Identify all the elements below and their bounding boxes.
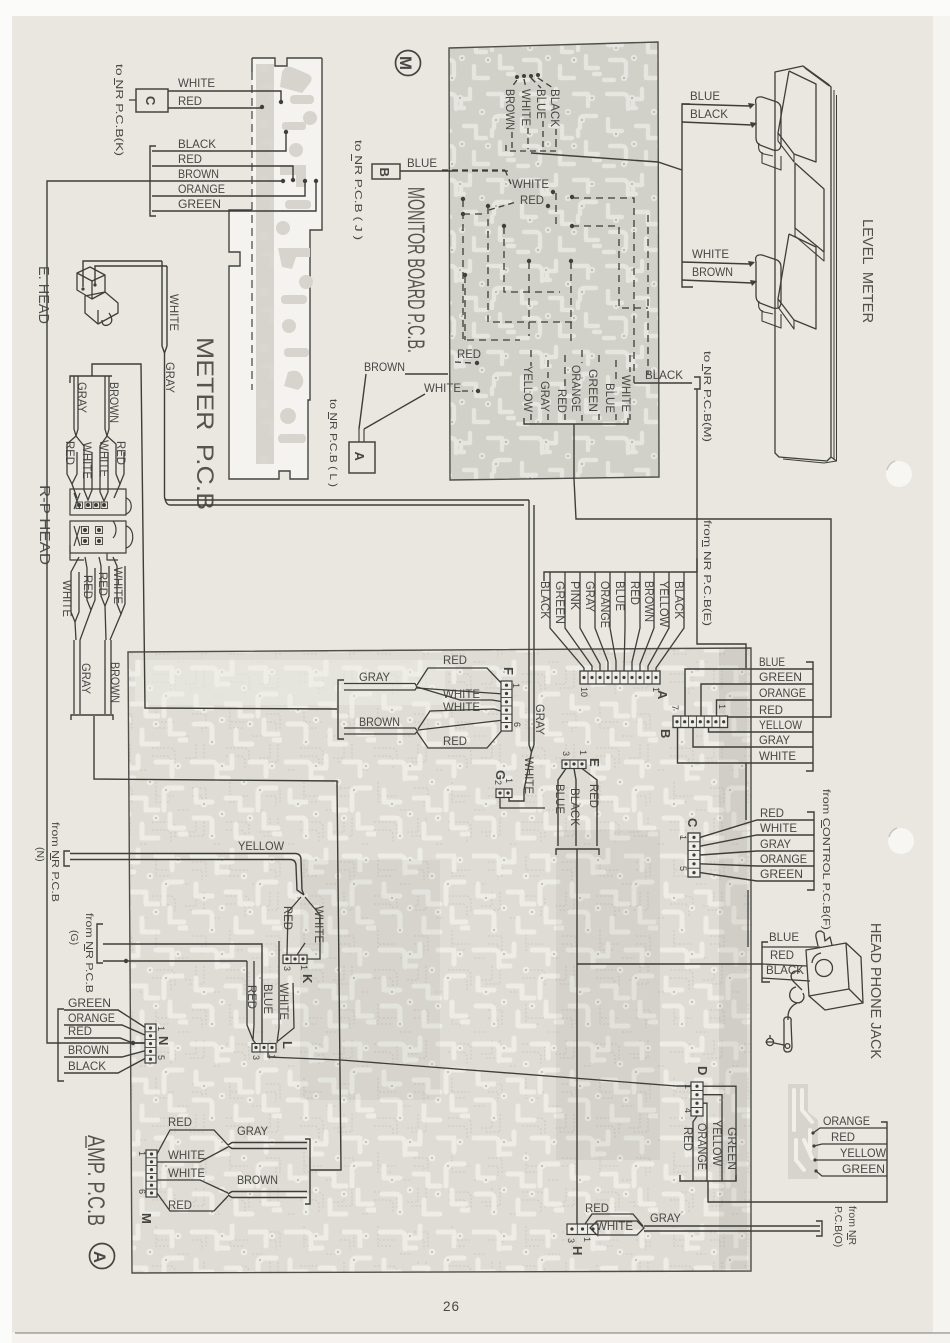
METER P.C.B label xyxy=(191,337,218,510)
svg-text:WHITE: WHITE xyxy=(168,1166,205,1180)
svg-text:RED: RED xyxy=(443,653,467,667)
monitor bottom wire labels YELLOW GRAY RED ORANGE GREEN BLUE WHITE xyxy=(521,365,633,413)
svg-text:B: B xyxy=(377,168,392,177)
circled A xyxy=(90,1244,115,1269)
svg-text:ORANGE: ORANGE xyxy=(598,581,612,628)
svg-text:from CONTROL P.C.B(F): from CONTROL P.C.B(F) xyxy=(820,789,832,930)
svg-text:BLACK: BLACK xyxy=(68,1059,106,1073)
svg-text:RED: RED xyxy=(831,1130,855,1144)
svg-text:(G): (G) xyxy=(68,930,80,945)
circled M xyxy=(396,51,421,76)
svg-text:3: 3 xyxy=(282,966,292,971)
pin label 1 xyxy=(582,1237,592,1242)
connector C(K) box xyxy=(129,89,168,112)
wire BLUE to L xyxy=(103,944,275,1044)
svg-text:RED: RED xyxy=(443,734,467,748)
label from NR P.C.B(O) xyxy=(832,1206,858,1247)
svg-text:ORANGE: ORANGE xyxy=(823,1114,870,1128)
pin label 5 xyxy=(678,866,688,871)
svg-text:1: 1 xyxy=(511,683,521,688)
pin label 3 xyxy=(251,1055,261,1060)
svg-text:ORANGE: ORANGE xyxy=(569,365,583,412)
wire RED monitor mid xyxy=(489,193,550,210)
wire B white to C red xyxy=(745,763,747,820)
pin label 5 xyxy=(156,1055,166,1060)
wire GREEN fragment xyxy=(816,1162,887,1176)
svg-text:from NR P.C.B: from NR P.C.B xyxy=(49,822,61,902)
svg-text:RED: RED xyxy=(178,152,202,166)
svg-text:GREEN: GREEN xyxy=(553,581,567,624)
wire BLACK xyxy=(152,130,288,151)
wire RED row C xyxy=(700,806,814,837)
svg-text:WHITE: WHITE xyxy=(312,906,326,943)
svg-text:BLUE: BLUE xyxy=(759,655,785,669)
wire BLUE from B box xyxy=(400,156,512,171)
wire RED row B xyxy=(727,703,813,717)
svg-text:BLACK: BLACK xyxy=(645,368,683,382)
R-P HEAD label xyxy=(36,485,53,565)
wire RED H xyxy=(585,1201,643,1226)
svg-text:GRAY: GRAY xyxy=(759,733,790,747)
svg-text:7: 7 xyxy=(670,705,680,710)
svg-text:GRAY: GRAY xyxy=(79,663,93,694)
svg-text:from NR P.C.B(E): from NR P.C.B(E) xyxy=(701,520,713,626)
svg-text:RED: RED xyxy=(81,575,95,599)
svg-text:M: M xyxy=(396,56,415,70)
connector E pin strip xyxy=(562,760,586,769)
svg-text:1: 1 xyxy=(578,750,588,755)
bracket NR(N) xyxy=(64,851,70,866)
svg-text:RED: RED xyxy=(68,1024,92,1038)
wire D bar to fragment bracket xyxy=(708,1181,887,1202)
G stub wire xyxy=(500,798,545,809)
svg-text:GRAY: GRAY xyxy=(538,381,552,412)
svg-text:1: 1 xyxy=(582,1237,592,1242)
R-P top sleeve RED xyxy=(63,436,77,498)
pin label 1 xyxy=(683,1084,693,1089)
H cable end bracket xyxy=(816,1221,822,1236)
svg-text:GRAY: GRAY xyxy=(75,382,89,413)
cable GRAY from H xyxy=(644,1211,820,1231)
pin label 6 xyxy=(137,1189,147,1194)
svg-text:RED: RED xyxy=(457,347,481,361)
svg-text:RED: RED xyxy=(63,441,77,465)
connector E designator xyxy=(587,758,602,767)
connector K pin strip xyxy=(283,955,307,964)
R-P head feed wire to F xyxy=(92,364,337,709)
svg-text:6: 6 xyxy=(137,1189,147,1194)
wire L to rail xyxy=(268,1052,691,1086)
svg-text:BLACK: BLACK xyxy=(548,89,562,127)
pin label 4 xyxy=(683,1108,693,1113)
svg-text:3: 3 xyxy=(251,1055,261,1060)
svg-text:1: 1 xyxy=(678,835,688,840)
svg-text:BLACK: BLACK xyxy=(672,581,686,619)
svg-text:BROWN: BROWN xyxy=(364,360,405,374)
connector C pin strip xyxy=(688,833,700,877)
svg-text:BROWN: BROWN xyxy=(68,1043,109,1057)
wire BLACK to NR PCB(M) xyxy=(634,368,692,383)
svg-text:1: 1 xyxy=(717,704,727,709)
R-P cable BROWN bottom xyxy=(105,640,122,714)
level meter terminal lugs xyxy=(748,103,757,286)
R-P head body xyxy=(70,489,133,560)
svg-text:ORANGE: ORANGE xyxy=(760,852,807,866)
E head shield cable WHITE xyxy=(162,261,181,353)
wire GREEN row B xyxy=(701,670,813,716)
pin label 3 xyxy=(561,751,571,756)
svg-text:MONITOR BOARD P.C.B.: MONITOR BOARD P.C.B. xyxy=(402,187,429,353)
MONITOR BOARD P.C.B label xyxy=(402,187,429,353)
monitor bottom dashed stubs to bracket xyxy=(531,414,630,422)
svg-text:RED: RED xyxy=(759,703,783,717)
svg-text:C: C xyxy=(685,818,700,828)
svg-text:A: A xyxy=(90,1251,109,1263)
head phone jack bracket xyxy=(762,942,770,982)
svg-text:WHITE: WHITE xyxy=(167,294,181,331)
connector G pin strip xyxy=(496,789,512,798)
wire RED M top xyxy=(157,1115,228,1154)
AMP. P.C.B label xyxy=(82,1135,109,1226)
wire GREEN from D xyxy=(703,1086,739,1181)
svg-text:E: E xyxy=(587,758,602,767)
wire BLUE row B xyxy=(685,655,813,716)
METER P.C.B copper traces xyxy=(256,64,317,464)
label from NR P.C.B (G) xyxy=(68,913,95,993)
svg-text:RED: RED xyxy=(770,948,794,962)
monitor top pin pads xyxy=(511,73,553,88)
R-P cable GRAY bottom xyxy=(74,640,93,714)
connector H designator xyxy=(570,1246,585,1255)
svg-text:BLUE: BLUE xyxy=(603,383,617,413)
svg-text:3: 3 xyxy=(566,1238,576,1243)
pin label 1 xyxy=(504,778,514,783)
E cable end bar xyxy=(556,849,599,855)
svg-text:BLACK: BLACK xyxy=(690,107,728,121)
copper fragment NR(O) xyxy=(788,1084,818,1179)
bracket to NR P.C.B(M) xyxy=(694,377,700,389)
R-P bottom cable end bar xyxy=(71,715,113,720)
cable GRAY to F xyxy=(344,670,417,690)
cable GRAY from M xyxy=(228,1124,307,1149)
wire RED from D xyxy=(681,1116,697,1181)
wire WHITE to L xyxy=(277,941,294,1043)
svg-text:RED: RED xyxy=(585,1201,609,1215)
E cable stem to H and jack xyxy=(577,849,762,1224)
svg-text:YELLOW: YELLOW xyxy=(759,718,803,732)
monitor internal pads xyxy=(461,190,574,277)
page number 26 xyxy=(443,1299,460,1314)
wire ORANGE row N xyxy=(64,1011,146,1036)
svg-text:GREEN: GREEN xyxy=(586,369,600,412)
svg-text:D: D xyxy=(695,1066,710,1075)
connector N designator xyxy=(156,1036,171,1045)
long wire left rail to N xyxy=(47,181,152,1045)
svg-text:F: F xyxy=(501,667,516,675)
wire YELLOW fragment xyxy=(815,1146,887,1160)
cable BROWN to F xyxy=(344,715,418,734)
cable YELLOW xyxy=(70,839,304,895)
wire ORANGE row B xyxy=(717,686,814,716)
pin label 1 xyxy=(678,835,688,840)
label from CONTROL P.C.B(F) xyxy=(820,789,832,930)
fragment rows bracket xyxy=(881,1122,887,1185)
svg-text:GREEN: GREEN xyxy=(725,1127,739,1170)
connector F pin strip xyxy=(501,681,512,731)
level meter assembly drawing xyxy=(756,66,837,463)
connector C designator xyxy=(685,818,700,828)
E head wires xyxy=(83,261,167,287)
svg-text:YELLOW: YELLOW xyxy=(521,366,535,413)
svg-text:1: 1 xyxy=(504,778,514,783)
MONITOR BOARD P.C.B copper area xyxy=(449,42,659,480)
cable bracket B right xyxy=(806,662,813,771)
cable bracket C right xyxy=(807,812,814,890)
svg-text:GRAY: GRAY xyxy=(359,670,390,684)
cable BROWN from M xyxy=(228,1173,307,1198)
connector B designator xyxy=(658,729,673,738)
HEAD PHONE JACK label xyxy=(867,923,884,1059)
svg-text:1: 1 xyxy=(156,1026,166,1031)
label from NR P.C.B(E) xyxy=(701,520,713,626)
AMP P.C.B board copper area xyxy=(128,648,751,1273)
cable bracket K xyxy=(150,146,156,216)
wire BLUE monitor top xyxy=(534,89,548,149)
wire to level meter bracket xyxy=(531,153,682,170)
wire WHITE M xyxy=(157,1147,228,1162)
svg-text:RED: RED xyxy=(178,94,202,108)
svg-text:ORANGE: ORANGE xyxy=(68,1011,115,1025)
svg-text:BLACK: BLACK xyxy=(766,963,804,977)
svg-text:BLUE: BLUE xyxy=(261,984,275,1014)
wire RED M bottom xyxy=(157,1193,228,1212)
svg-text:BROWN: BROWN xyxy=(642,581,656,622)
svg-text:WHITE: WHITE xyxy=(168,1148,205,1162)
svg-text:B: B xyxy=(658,729,673,738)
wire WHITE H xyxy=(590,1219,644,1235)
pin label 6 xyxy=(512,722,522,727)
M cable end bracket xyxy=(305,1139,312,1204)
wire YELLOW row B xyxy=(709,718,814,732)
svg-text:WHITE: WHITE xyxy=(619,375,633,412)
label from NR P.C.B (N) xyxy=(34,822,61,902)
svg-text:GRAY: GRAY xyxy=(583,581,597,612)
wire GRAY row B xyxy=(693,728,813,748)
wire BLUE from E xyxy=(553,769,567,847)
pin label 1 xyxy=(299,965,309,970)
punch hole upper right xyxy=(886,461,912,487)
svg-text:WHITE: WHITE xyxy=(60,580,74,617)
wire WHITE monitor mid xyxy=(442,170,549,191)
wire R-P to M bracket xyxy=(94,716,341,1170)
svg-text:BLUE: BLUE xyxy=(769,930,799,944)
svg-text:WHITE: WHITE xyxy=(111,567,125,604)
label to NR P.C.B(M) xyxy=(701,351,713,442)
svg-text:HEAD PHONE JACK: HEAD PHONE JACK xyxy=(867,923,884,1059)
wire WHITE M 2 xyxy=(157,1166,228,1193)
wire RED xyxy=(152,152,295,182)
wire WHITE from C xyxy=(168,76,283,104)
wire RED to K xyxy=(281,897,301,955)
wire RED from E xyxy=(582,769,601,847)
connector D designator xyxy=(695,1066,710,1075)
svg-text:to NR P.C.B(K): to NR P.C.B(K) xyxy=(113,64,125,156)
R-P top sleeve RED 2 xyxy=(107,436,128,498)
bracket NR(G) xyxy=(97,924,103,963)
connector G designator xyxy=(493,770,508,780)
wire BLACK monitor top xyxy=(548,89,562,149)
svg-text:BLUE: BLUE xyxy=(690,89,720,103)
wire GREEN row C xyxy=(700,867,814,881)
wire RED from C xyxy=(168,94,264,109)
wire WHITE monitor bottom left xyxy=(424,381,480,395)
svg-text:GREEN: GREEN xyxy=(68,996,111,1010)
svg-text:BLUE: BLUE xyxy=(534,89,548,119)
svg-text:P.C.B(O): P.C.B(O) xyxy=(832,1206,844,1247)
wire BLUE jack xyxy=(762,930,820,947)
wire BLACK level meter xyxy=(682,107,752,125)
pin label 1 xyxy=(511,683,521,688)
wire level meter black to B row blue xyxy=(697,389,746,668)
svg-text:4: 4 xyxy=(683,1108,693,1113)
svg-text:GRAY: GRAY xyxy=(760,837,791,851)
wire WHITE level meter xyxy=(682,247,750,264)
svg-text:L: L xyxy=(280,1041,295,1049)
svg-text:1: 1 xyxy=(299,965,309,970)
connector A(L) box xyxy=(349,429,375,473)
svg-text:WHITE: WHITE xyxy=(760,821,797,835)
harness wires into connector A xyxy=(550,572,684,671)
wire WHITE to G xyxy=(509,752,536,801)
wire ORANGE from D xyxy=(695,1103,709,1181)
svg-text:5: 5 xyxy=(678,866,688,871)
svg-text:(N): (N) xyxy=(34,847,46,862)
cable GRAY label mid xyxy=(533,704,547,735)
wire BROWN monitor top xyxy=(503,89,517,149)
AMP P.C.B board outline xyxy=(128,648,751,1273)
harness wire labels BLACK..BLACK xyxy=(538,581,686,628)
pin label 7 xyxy=(670,705,680,710)
svg-text:RED: RED xyxy=(628,581,642,605)
R-P bottom sleeve WHITE xyxy=(60,557,79,640)
E head terminals xyxy=(81,283,96,290)
svg-text:YELLOW: YELLOW xyxy=(657,581,671,628)
svg-text:5: 5 xyxy=(156,1055,166,1060)
R-P head pads xyxy=(77,503,106,543)
svg-text:RED: RED xyxy=(168,1115,192,1129)
svg-text:RED: RED xyxy=(96,572,110,596)
wire RED row N xyxy=(64,1024,146,1043)
svg-text:WHITE: WHITE xyxy=(692,247,729,261)
svg-text:GREEN: GREEN xyxy=(759,670,802,684)
wire GREEN row N xyxy=(64,996,146,1028)
svg-text:3: 3 xyxy=(561,751,571,756)
svg-text:RED: RED xyxy=(168,1198,192,1212)
connector D pin strip xyxy=(691,1082,703,1116)
wire WHITE F xyxy=(417,687,504,702)
connector A designator xyxy=(655,690,670,700)
svg-text:BLUE: BLUE xyxy=(553,784,567,814)
connector M designator xyxy=(139,1213,154,1224)
connector M pin strip xyxy=(146,1150,157,1197)
connector N pin strip xyxy=(145,1024,156,1063)
svg-text:WHITE: WHITE xyxy=(759,749,796,763)
pin label 1 xyxy=(717,704,727,709)
svg-text:RED: RED xyxy=(520,193,544,207)
wire ORANGE xyxy=(152,179,307,196)
pin label 1 xyxy=(267,1054,277,1059)
svg-text:ORANGE: ORANGE xyxy=(178,182,225,196)
R-P cable GRAY top xyxy=(74,376,89,436)
connector F designator xyxy=(501,667,516,675)
punch hole lower right xyxy=(888,828,914,854)
svg-text:2: 2 xyxy=(493,780,503,785)
connector K designator xyxy=(300,974,315,984)
R-P top sleeve WHITE 2 xyxy=(97,436,111,501)
wire WHITE row B xyxy=(678,728,814,764)
pin label 1 xyxy=(651,687,661,692)
wire YELLOW from D xyxy=(703,1095,724,1181)
connector L pin strip xyxy=(252,1044,276,1053)
svg-text:GREEN: GREEN xyxy=(178,197,221,211)
pin label 10 xyxy=(579,687,589,697)
svg-text:1: 1 xyxy=(137,1151,147,1156)
wire RED fragment xyxy=(814,1130,887,1146)
label to NR P.C.B(J) xyxy=(352,140,365,240)
wire BROWN row N xyxy=(64,1043,146,1057)
svg-text:RED: RED xyxy=(587,784,601,808)
svg-text:WHITE: WHITE xyxy=(512,177,549,191)
R-P cable BROWN top xyxy=(105,376,121,436)
connector A pin strip xyxy=(580,671,660,684)
svg-text:from NR P.C.B: from NR P.C.B xyxy=(83,913,95,993)
svg-text:BROWN: BROWN xyxy=(237,1173,278,1187)
svg-text:GREEN: GREEN xyxy=(842,1162,885,1176)
svg-text:A: A xyxy=(352,452,367,462)
wire WHITE F 2 xyxy=(418,700,504,729)
svg-text:R-P HEAD: R-P HEAD xyxy=(36,485,53,565)
svg-text:WHITE: WHITE xyxy=(519,89,533,126)
wire ORANGE fragment xyxy=(813,1114,887,1133)
svg-text:BROWN: BROWN xyxy=(503,89,517,130)
wire ORANGE row C xyxy=(700,852,814,866)
D stub wire xyxy=(676,1085,691,1087)
harness bracket NR(E) xyxy=(544,558,697,581)
monitor top cable bracket xyxy=(506,145,556,151)
svg-text:10: 10 xyxy=(579,687,589,697)
svg-text:WHITE: WHITE xyxy=(424,381,461,395)
wire GREEN xyxy=(152,179,318,211)
level meter wire bracket xyxy=(682,104,693,287)
svg-text:N: N xyxy=(156,1036,171,1045)
D cable end bar xyxy=(680,1175,736,1181)
svg-text:BLACK: BLACK xyxy=(538,581,552,619)
svg-text:M: M xyxy=(139,1213,154,1224)
METER P.C.B outline xyxy=(229,58,322,479)
E head drawing xyxy=(77,267,118,325)
wire BROWN to A box xyxy=(359,360,448,429)
svg-text:ORANGE: ORANGE xyxy=(759,686,806,700)
wire RED monitor bottom left xyxy=(455,347,481,365)
E head cable GRAY run xyxy=(163,353,534,752)
pin label 1 xyxy=(137,1151,147,1156)
svg-text:GRAY: GRAY xyxy=(237,1124,268,1138)
svg-text:BLACK: BLACK xyxy=(178,137,216,151)
monitor bottom cable bracket xyxy=(524,418,628,424)
svg-text:E. HEAD: E. HEAD xyxy=(35,266,52,324)
pin label 1 xyxy=(578,750,588,755)
svg-text:BROWN: BROWN xyxy=(108,662,122,703)
